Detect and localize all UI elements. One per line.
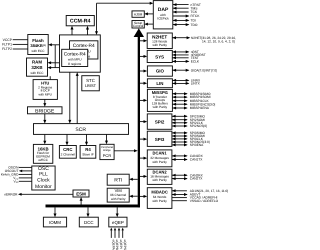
svg-text:with ECC: with ECC (31, 49, 45, 53)
svg-text:eQEPA: eQEPA (111, 240, 115, 250)
svg-text:Slave IF: Slave IF (82, 153, 94, 157)
svg-text:VCCP: VCCP (3, 38, 13, 42)
block DAP (153, 1, 173, 29)
block IOMM (43, 217, 66, 227)
wire SCR to Cortex up (76, 75, 78, 123)
block N2HET (147, 33, 172, 49)
wire RAM to HTU (49, 76, 51, 79)
svg-text:w/ECC: w/ECC (38, 158, 49, 162)
wire Cortex to RAM arrow 1 (50, 62, 60, 64)
wire Cortex to SCR down (69, 72, 71, 120)
svg-text:eQEPI: eQEPI (119, 240, 123, 249)
svg-text:with Parity: with Parity (111, 197, 126, 201)
wire eQEP pin 1 (110, 230, 112, 238)
wire eQEP pin 4 (122, 230, 124, 238)
block RTI (107, 174, 129, 185)
block eQEP (109, 217, 127, 227)
svg-text:ECLK: ECLK (191, 60, 200, 64)
N2HET signal (172, 36, 236, 44)
block BRIDGE (28, 107, 63, 114)
svg-text:FLTP1: FLTP1 (2, 43, 12, 47)
svg-text:FLTP2: FLTP2 (2, 47, 12, 51)
bus bottom horizontal thick (46, 205, 141, 208)
svg-text:GIOA[7:0]/INT[7:0]: GIOA[7:0]/INT[7:0] (191, 68, 218, 72)
block Debug Control (132, 21, 144, 29)
wire vertical drop to Cortex top (96, 3, 98, 32)
block VIM (107, 188, 129, 202)
block Flash (28, 35, 48, 55)
SPI3 signals (172, 131, 210, 147)
block SPI2 (147, 114, 172, 129)
wire Cortex to CCM arrow 2 (87, 29, 89, 35)
svg-text:Clock: Clock (37, 177, 50, 183)
svg-text:with MPU: with MPU (38, 93, 52, 97)
svg-text:Monitor: Monitor (35, 184, 52, 190)
svg-text:Bridge: Bridge (103, 149, 111, 152)
wire SCR to 16KB flash (44, 134, 46, 141)
svg-text:SYS: SYS (155, 54, 164, 59)
wire DAP to Debug Control (147, 23, 153, 25)
wire bus to IOMM (54, 207, 56, 214)
svg-text:DCAN2: DCAN2 (153, 169, 168, 174)
svg-text:Control: Control (133, 24, 143, 28)
wire VIM to bus (132, 195, 138, 197)
svg-text:LINTX: LINTX (191, 82, 201, 86)
svg-text:SCR: SCR (75, 127, 86, 133)
SPI2 signals (172, 114, 207, 128)
block STC (82, 76, 100, 91)
LIN signals (172, 79, 201, 86)
bus branch SPI2 (140, 121, 144, 123)
wire Cortex to Flash arrow (51, 44, 60, 46)
block SCR (34, 124, 129, 135)
svg-text:SPI3ENA: SPI3ENA (190, 143, 204, 147)
bus branch DCAN1 (140, 157, 144, 159)
svg-text:with Parity: with Parity (153, 105, 168, 109)
peripheral bus top big arrow (134, 28, 144, 37)
wire SCR to CRC (66, 134, 68, 142)
svg-text:RTCK: RTCK (191, 14, 201, 18)
wire eQEP pin 3 (118, 230, 120, 238)
svg-text:Cortex-R4: Cortex-R4 (64, 51, 86, 57)
DAP signals (173, 3, 201, 27)
wire vertical tie flash-ram bus (54, 45, 56, 68)
wire Cortex to RAM arrow 2 (50, 67, 60, 69)
svg-text:IOMM: IOMM (49, 220, 61, 225)
peripheral bus vertical thick (138, 36, 140, 207)
DCAN1 signals (172, 154, 204, 162)
block SPI3 (147, 131, 172, 146)
wire eQEP pin 2 (114, 230, 116, 238)
svg-text:ICEPick: ICEPick (157, 17, 169, 21)
svg-text:R4: R4 (85, 147, 91, 152)
svg-text:Kelvin_GND: Kelvin_GND (1, 173, 19, 177)
wire Cortex to CCM arrow 1 (71, 29, 73, 35)
block ESM (73, 190, 89, 197)
block DCAN1 (147, 150, 172, 167)
svg-text:CCM-R4: CCM-R4 (70, 19, 91, 25)
svg-text:CRC: CRC (63, 147, 72, 152)
svg-text:32KB: 32KB (31, 65, 42, 70)
block Cortex-R4 back CPU (70, 41, 98, 59)
block GIO (147, 66, 172, 76)
svg-text:with Parity: with Parity (152, 43, 167, 47)
MIBADC signals (172, 189, 228, 203)
svg-text:BRIDGE: BRIDGE (35, 108, 55, 114)
svg-text:SPI3: SPI3 (155, 137, 165, 142)
block OSC PLL Clock Monitor (32, 166, 55, 190)
svg-text:2 Channel: 2 Channel (61, 153, 76, 157)
block DCC (79, 217, 98, 227)
svg-text:Flash: Flash (32, 38, 44, 43)
svg-text:PCR: PCR (103, 153, 112, 158)
svg-text:ESM: ESM (76, 191, 86, 196)
svg-text:with Parity: with Parity (152, 160, 167, 164)
block AJSM (132, 11, 144, 17)
wire bus to eQEP (116, 207, 118, 214)
svg-text:TDO: TDO (191, 23, 198, 27)
DCAN2 signals (172, 173, 204, 180)
svg-text:CAN1TX: CAN1TX (190, 158, 203, 162)
wire RTI to bus (132, 178, 138, 180)
block CRC (59, 146, 76, 159)
svg-text:LIN: LIN (156, 81, 163, 86)
wire SCR to PCR (106, 134, 108, 141)
svg-text:with Parity: with Parity (152, 178, 167, 182)
wire bus to ESM up arrow (80, 200, 82, 205)
block CCM-R4 (66, 16, 94, 26)
wire top horizontal to DAP (97, 2, 151, 4)
block RAM (27, 58, 48, 76)
svg-text:eQEP: eQEP (112, 220, 124, 225)
svg-text:Cortex-R4: Cortex-R4 (73, 43, 95, 49)
wire SCR to R4 (86, 134, 88, 142)
svg-text:nERROR: nERROR (4, 193, 18, 197)
svg-text:with Parity: with Parity (152, 199, 167, 203)
block MIBADC (147, 188, 172, 209)
block LIN (147, 79, 172, 88)
svg-text:SPI2NCS[0]: SPI2NCS[0] (190, 124, 207, 128)
block 16KB flash EEPROM (33, 144, 52, 163)
svg-text:LBIST: LBIST (85, 83, 97, 88)
bus branch MIBADC (140, 195, 144, 197)
SYS signals (172, 50, 206, 64)
block SYS (147, 50, 172, 62)
svg-text:RAM: RAM (32, 60, 42, 65)
svg-text:AJSM: AJSM (134, 13, 143, 17)
bus branch GIO (140, 70, 144, 72)
block HTU (33, 80, 57, 100)
block Cortex-R4 container (60, 35, 101, 72)
svg-text:eQEPS: eQEPS (123, 240, 127, 250)
svg-text:SPI2: SPI2 (155, 120, 165, 125)
svg-text:14, 12, 10, 9, 6, 4, 2, 0]: 14, 12, 10, 9, 6, 4, 2, 0] (202, 40, 235, 44)
svg-text:eQEPB: eQEPB (115, 240, 119, 250)
block PCR (100, 144, 114, 159)
svg-text:CAN2TX: CAN2TX (190, 177, 203, 181)
svg-text:GIO: GIO (156, 69, 165, 74)
svg-text:RTI: RTI (114, 177, 122, 183)
bus branch N2HET (140, 40, 144, 42)
svg-text:with ECC: with ECC (30, 71, 44, 75)
block DCAN2 (147, 169, 172, 184)
block R4 slave (80, 146, 96, 159)
bus branch SYS (140, 55, 144, 57)
bus branch LIN (140, 82, 144, 84)
bus branch SPI3 (140, 138, 144, 140)
svg-text:MIBSPI1ENA: MIBSPI1ENA (190, 106, 210, 110)
wire HTU to BRIDGE (44, 99, 46, 103)
svg-text:MiBADC: MiBADC (151, 189, 167, 194)
block MIBSPI1 (147, 89, 172, 111)
GIO signal (172, 68, 217, 72)
svg-text:8 regions: 8 regions (68, 62, 82, 66)
bus branch MIBSPI1 (140, 99, 144, 101)
svg-text:VSSAD / ADREFLO: VSSAD / ADREFLO (190, 199, 219, 203)
wire BRIDGE to SCR (44, 114, 46, 121)
block Cortex-R4 front CPU (62, 49, 88, 66)
wire bus to DCC (87, 207, 89, 214)
wire DAP to AJSM (147, 13, 153, 15)
wire PCR to bus (114, 150, 135, 152)
svg-text:DCC: DCC (84, 220, 94, 225)
MIBSPI1 signals (172, 92, 215, 110)
bus branch DCAN2 (140, 175, 144, 177)
